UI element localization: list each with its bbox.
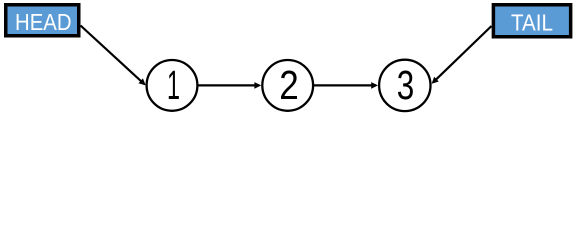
svg-text:TAIL: TAIL bbox=[511, 10, 553, 36]
wire arrow node 2 to node 3 bbox=[314, 82, 378, 89]
svg-text:2: 2 bbox=[279, 62, 299, 108]
node 1 circle bbox=[147, 60, 198, 111]
node HEAD box bbox=[6, 5, 79, 36]
node 3 circle bbox=[379, 60, 430, 111]
node 2 circle bbox=[262, 60, 313, 111]
svg-text:3: 3 bbox=[397, 62, 415, 108]
svg-text:HEAD: HEAD bbox=[15, 9, 72, 35]
svg-text:1: 1 bbox=[167, 62, 180, 108]
wire arrow TAIL to node 3 bbox=[432, 26, 492, 84]
wire arrow node 1 to node 2 bbox=[198, 82, 261, 89]
wire arrow HEAD to node 1 bbox=[81, 26, 146, 86]
node TAIL box bbox=[493, 5, 570, 37]
